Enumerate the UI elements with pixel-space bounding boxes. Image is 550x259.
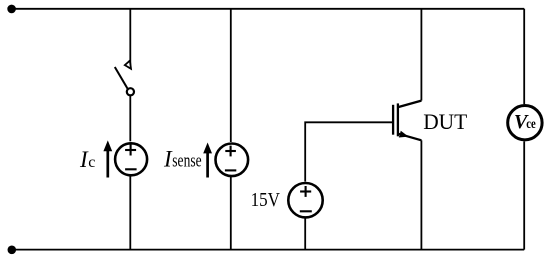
svg-text:sense: sense: [172, 152, 201, 172]
wire: top rail: [12, 8, 525, 10]
transistor DUT (IGBT: gate bar, body bar, collector/emitter diagonals, emitter arrow): [393, 101, 421, 141]
arrow: Ic direction (upward): [103, 140, 112, 177]
svg-text:ce: ce: [526, 117, 536, 132]
voltmeter Vce: [508, 106, 542, 140]
wire: Isense branch top lead: [230, 9, 232, 142]
wire: switch branch top lead: [129, 9, 131, 69]
label Isense: [163, 147, 202, 172]
wire: Isense source bottom lead: [230, 177, 232, 250]
node: top-left junction dot: [7, 5, 16, 14]
label Ic: [79, 147, 95, 172]
wire: DUT emitter lead: [420, 140, 422, 249]
label 15V: [251, 190, 280, 211]
voltage source V1 15V: [288, 183, 322, 217]
wire: bottom rail: [12, 249, 524, 251]
wire: gate drive from 15V source to DUT gate: [305, 122, 392, 181]
node: bottom-left junction dot: [8, 246, 17, 255]
wire: DUT collector lead: [420, 9, 422, 101]
wire: 15V source bottom lead: [304, 218, 306, 250]
wire: right branch bottom lead: [523, 141, 525, 249]
current source Isense: [216, 144, 249, 177]
svg-text:15V: 15V: [251, 190, 280, 211]
switch S1 (fixed contact barb, blade, hinge): [115, 61, 134, 96]
label DUT: [423, 109, 468, 134]
arrow: Isense direction (upward): [203, 143, 212, 178]
wire: right branch top lead (to Vce meter): [523, 9, 525, 104]
svg-text:c: c: [88, 154, 95, 171]
wire: Ic source bottom lead: [129, 176, 131, 249]
svg-text:DUT: DUT: [423, 109, 468, 134]
wire: switch hinge to Ic source: [129, 95, 131, 141]
current source Ic: [115, 143, 147, 175]
